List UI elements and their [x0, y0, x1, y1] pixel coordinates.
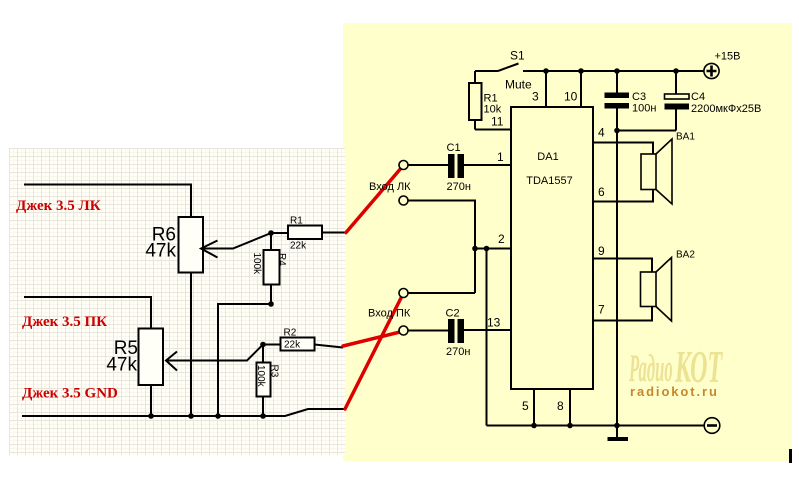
- svg-text:2200мкФх25В: 2200мкФх25В: [691, 103, 761, 115]
- svg-text:22k: 22k: [284, 340, 301, 351]
- wire pin3: [545, 71, 547, 107]
- wire GND bus: [22, 409, 345, 416]
- svg-text:13: 13: [487, 316, 501, 330]
- wire input T1 to C1: [408, 164, 448, 166]
- svg-text:Джек 3.5 ПК: Джек 3.5 ПК: [22, 314, 107, 330]
- svg-text:radiokot.ru: radiokot.ru: [630, 384, 719, 399]
- wire R1 to pin11: [475, 120, 511, 130]
- svg-text:5: 5: [522, 399, 529, 413]
- svg-text:6: 6: [598, 185, 605, 199]
- wire C2 to pin13: [464, 329, 511, 331]
- node GND bus R6: [188, 413, 194, 419]
- svg-text:47k: 47k: [145, 241, 176, 262]
- node pin2 junction a: [472, 246, 478, 252]
- resistor R3 100k vertical: [257, 363, 271, 397]
- node C3 bottom: [614, 128, 620, 134]
- wire input T4 to C2: [408, 330, 448, 332]
- wire C4 top: [675, 71, 677, 94]
- wire S1 to R1: [474, 71, 476, 83]
- wire C3 C4 link: [617, 130, 676, 132]
- wire C1 to pin1: [464, 164, 511, 166]
- node R5 wiper junction: [260, 342, 266, 348]
- svg-text:C1: C1: [447, 142, 461, 154]
- wire switch S1 left: [475, 70, 498, 72]
- svg-text:270н: 270н: [446, 346, 470, 358]
- svg-text:Mute: Mute: [505, 78, 532, 92]
- svg-text:100k: 100k: [251, 253, 262, 276]
- svg-text:Джек 3.5 ЛК: Джек 3.5 ЛК: [16, 198, 101, 214]
- wire node R5wiper to R2: [263, 344, 281, 346]
- svg-text:270н: 270н: [447, 181, 471, 193]
- svg-text:BA2: BA2: [676, 250, 695, 261]
- capacitor C2 plates: [448, 319, 455, 343]
- svg-text:Джек 3.5 GND: Джек 3.5 GND: [22, 386, 118, 402]
- svg-text:TDA1557: TDA1557: [526, 175, 572, 187]
- svg-text:R3: R3: [269, 365, 280, 378]
- terminal +15V: [704, 63, 719, 78]
- switch S1 blade: [498, 64, 519, 72]
- wire R3 top: [262, 345, 264, 363]
- terminal input LK top: [399, 161, 408, 170]
- speaker BA2: [641, 272, 657, 307]
- wire node2 to pin2: [475, 248, 511, 250]
- node bottom pin8: [567, 423, 573, 429]
- wire jack LK to R6 top: [24, 185, 191, 218]
- svg-text:100н: 100н: [632, 103, 656, 115]
- wire C3 top: [616, 71, 618, 93]
- wire node R6wiper to R1: [271, 232, 288, 234]
- node GND bus R5: [148, 413, 154, 419]
- wire jack PK to R5 top: [24, 297, 151, 329]
- terminal input PK top: [399, 289, 408, 298]
- wire R5 bottom to GND bus: [150, 385, 152, 416]
- node C3 rail: [614, 68, 620, 74]
- svg-text:DA1: DA1: [537, 151, 558, 163]
- wire R6 bottom to GND bus: [190, 273, 192, 417]
- wire ground stub: [616, 426, 618, 438]
- wire pin8: [569, 389, 571, 426]
- terminal input PK bottom: [399, 326, 408, 335]
- wire top +15V rail: [523, 70, 704, 72]
- svg-text:2: 2: [498, 232, 505, 246]
- svg-text:Вход ЛК: Вход ЛК: [369, 181, 411, 193]
- wire input T2 down to node2: [408, 201, 475, 294]
- node S1 pin3: [543, 68, 549, 74]
- cursor tick bottom right: [789, 449, 792, 463]
- grid paper panel: [9, 148, 345, 455]
- wire main ground rail: [616, 131, 618, 426]
- terminal minus: [704, 418, 720, 434]
- svg-text:R4: R4: [276, 253, 287, 266]
- terminal input LK bottom: [399, 196, 408, 205]
- wire C3 bottom: [616, 109, 618, 131]
- yellow schematic panel: [343, 23, 792, 461]
- svg-text:9: 9: [598, 244, 605, 258]
- potentiometer R5 wiper arrowhead: [166, 352, 177, 371]
- red patch wire ground: [345, 296, 402, 409]
- node pin2 junction b: [484, 246, 490, 252]
- svg-text:BA1: BA1: [676, 132, 695, 143]
- svg-text:C2: C2: [446, 308, 460, 320]
- node pin10 rail: [578, 68, 584, 74]
- svg-text:11: 11: [491, 115, 504, 129]
- wire BA1 top: [593, 143, 653, 155]
- capacitor C1 plates: [448, 154, 455, 178]
- node C4 rail: [673, 68, 679, 74]
- resistor R4 100k vertical: [264, 250, 280, 285]
- capacitor C4 plates electrolytic: [665, 94, 690, 99]
- svg-text:C3: C3: [632, 91, 646, 103]
- node GND bus R4 branch: [215, 413, 221, 419]
- wire signal gnd down: [486, 249, 488, 426]
- potentiometer R5 body: [139, 329, 164, 386]
- svg-text:47k: 47k: [106, 355, 137, 376]
- wire BA2 top: [593, 259, 652, 273]
- svg-text:+15В: +15В: [715, 51, 741, 63]
- red patch wire right channel: [343, 332, 400, 346]
- svg-text:8: 8: [557, 399, 564, 413]
- svg-text:100k: 100k: [255, 365, 266, 388]
- node bottom rail: [614, 423, 620, 429]
- wire BA1 bottom: [593, 190, 653, 202]
- wire R3 bottom to GND: [262, 397, 264, 417]
- svg-text:4: 4: [598, 126, 605, 140]
- wire R4 bottom to GND: [218, 285, 271, 417]
- wire R6 wiper arm: [201, 233, 271, 249]
- resistor R1 10k vertical: [469, 83, 482, 120]
- wire R2 to red link: [315, 345, 344, 348]
- wire C4 bottom: [675, 110, 677, 131]
- potentiometer R6 body: [179, 217, 204, 273]
- svg-text:22k: 22k: [290, 241, 307, 252]
- svg-text:Вход ПК: Вход ПК: [368, 308, 411, 320]
- node GND bus R3: [260, 413, 266, 419]
- ground symbol: [608, 437, 629, 441]
- resistor R1 22k horizontal: [288, 226, 322, 240]
- svg-text:10: 10: [564, 90, 578, 104]
- svg-text:C4: C4: [691, 91, 705, 103]
- svg-text:R2: R2: [284, 328, 297, 339]
- wire R4 top: [270, 233, 272, 250]
- wire pin5: [533, 389, 535, 426]
- watermark Radio KOT: [628, 342, 723, 392]
- red patch wire left channel: [346, 167, 402, 233]
- svg-text:7: 7: [598, 303, 605, 317]
- svg-text:S1: S1: [510, 49, 525, 63]
- wire pin10: [580, 71, 582, 107]
- svg-text:3: 3: [532, 90, 539, 104]
- node bottom pin5: [531, 423, 537, 429]
- wire bottom ground bus: [487, 425, 705, 427]
- svg-text:1: 1: [497, 150, 504, 164]
- wire R1 to red link: [322, 232, 346, 234]
- wire BA2 bottom: [593, 307, 652, 321]
- node R6 wiper junction: [268, 230, 274, 236]
- speaker BA1: [641, 154, 656, 190]
- wire R5 wiper arm: [166, 345, 263, 361]
- capacitor C3 plates: [605, 93, 630, 99]
- potentiometer R6 wiper arrowhead: [201, 241, 218, 258]
- resistor R2 22k horizontal: [281, 338, 315, 351]
- IC DA1 TDA1557 body: [511, 107, 593, 389]
- node R4 bottom junction: [268, 301, 274, 307]
- svg-text:R1: R1: [290, 216, 303, 227]
